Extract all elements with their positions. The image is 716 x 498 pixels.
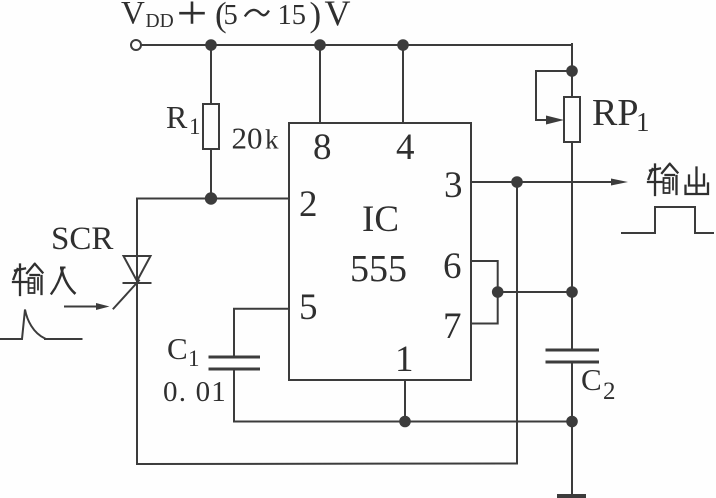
capacitor C1 (210, 357, 259, 369)
出 char (695, 168, 697, 194)
output pulse waveform (622, 207, 713, 233)
svg-text:4: 4 (396, 127, 415, 168)
resistor R1 (203, 104, 219, 149)
junction R1 top (206, 40, 216, 50)
thyristor SCR (114, 199, 151, 309)
svg-text:2: 2 (603, 378, 616, 405)
arrow input to gate (65, 303, 110, 310)
wire R1 top lead (210, 45, 212, 104)
label input (Chinese 输入) hand-drawn (13, 264, 75, 295)
svg-text:1: 1 (188, 346, 200, 371)
wire wiper loop (536, 71, 572, 120)
input trigger pulse waveform (0, 310, 82, 340)
svg-text:15: 15 (278, 0, 307, 31)
svg-text:DD: DD (146, 11, 174, 32)
svg-text:20: 20 (232, 121, 263, 156)
junction threshold node (567, 287, 577, 297)
svg-text:6: 6 (443, 246, 462, 287)
wire R1 bottom lead (210, 149, 212, 199)
wire RP1 bottom to C2 (571, 142, 573, 349)
arrow wiper (546, 116, 564, 125)
svg-text:k: k (265, 125, 279, 155)
wire output from pin 3 (471, 181, 613, 183)
junction bracket node (493, 287, 503, 297)
wire pin 1 (404, 380, 406, 422)
svg-text:1: 1 (189, 114, 201, 139)
svg-text:C: C (167, 331, 188, 366)
wire feedback vertical to output node (516, 182, 518, 464)
wire pin 5 to C1 (234, 309, 289, 356)
wire bottom feedback horizontal (137, 463, 517, 466)
label VDD supply voltage (121, 0, 351, 34)
wire SCR cathode down (136, 283, 138, 464)
svg-text:5: 5 (299, 287, 318, 328)
svg-text:RP: RP (592, 92, 638, 134)
junction RP1 wiper tie (567, 66, 577, 76)
IC U1 555 timer body (289, 123, 471, 380)
label RP1 (592, 92, 650, 137)
wire top supply rail (141, 44, 572, 46)
wire pins 6-7 bracket (471, 261, 498, 324)
wire pin 4 (402, 45, 404, 123)
svg-text:5: 5 (224, 0, 238, 31)
输 char (650, 169, 660, 171)
capacitor C2 (547, 350, 598, 362)
wire ground rail (234, 421, 572, 423)
junction output node (512, 177, 522, 187)
svg-text:V: V (325, 0, 351, 33)
入 char (52, 268, 64, 294)
svg-text:8: 8 (313, 127, 332, 168)
junction pin 1 ground (400, 417, 410, 427)
junction pin 8 rail (315, 40, 325, 50)
wire C2 bottom to ground (571, 362, 573, 495)
svg-text:555: 555 (350, 248, 407, 290)
svg-text:1: 1 (395, 339, 414, 380)
svg-text:1: 1 (636, 107, 650, 137)
svg-text:): ) (310, 0, 322, 34)
svg-text:IC: IC (362, 199, 399, 240)
junction ground node (567, 417, 577, 427)
svg-text:3: 3 (444, 165, 463, 206)
terminal VDD input (131, 40, 141, 50)
ground (557, 494, 586, 498)
wire VDD rail down to RP1 (571, 44, 573, 97)
svg-text:7: 7 (443, 306, 462, 347)
arrow output (611, 179, 628, 186)
potentiometer RP1 body (564, 97, 580, 142)
wire pin 8 (319, 45, 321, 123)
wire C1 bottom to ground rail (233, 369, 235, 422)
label R1 (166, 99, 201, 139)
svg-text:C: C (581, 362, 602, 397)
label C1 (167, 331, 200, 371)
输 char (15, 269, 25, 271)
wire bracket to C2 top (498, 291, 572, 293)
svg-text:V: V (121, 0, 145, 32)
svg-text:R: R (166, 99, 188, 135)
junction R1 / pin 2 (206, 193, 216, 203)
junction pin 4 rail (398, 40, 408, 50)
label output (Chinese 输出) hand-drawn (648, 164, 708, 195)
svg-text:0. 01: 0. 01 (163, 376, 227, 408)
svg-text:2: 2 (299, 184, 318, 225)
svg-text:SCR: SCR (51, 221, 113, 257)
label C2 (581, 362, 616, 405)
wire pin 2 row (137, 198, 289, 200)
